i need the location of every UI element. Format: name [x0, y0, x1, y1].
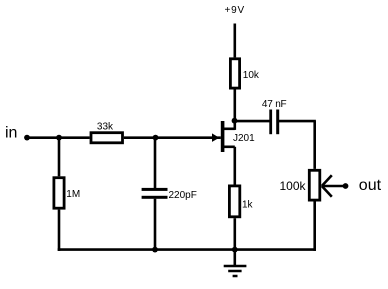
svg-text:220pF: 220pF	[169, 190, 197, 201]
svg-text:1M: 1M	[66, 189, 80, 200]
svg-text:in: in	[5, 125, 17, 142]
svg-text:out: out	[359, 177, 382, 194]
svg-text:J201: J201	[233, 133, 255, 144]
svg-text:100k: 100k	[280, 179, 307, 193]
svg-text:+9V: +9V	[225, 5, 245, 16]
svg-text:1k: 1k	[242, 199, 254, 210]
svg-text:47 nF: 47 nF	[262, 99, 287, 110]
svg-text:10k: 10k	[243, 70, 260, 81]
svg-text:33k: 33k	[97, 121, 114, 132]
